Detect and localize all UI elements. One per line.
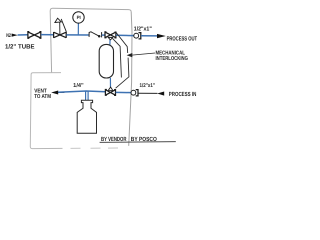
svg-text:PI: PI xyxy=(77,15,81,20)
three-way valve V3 xyxy=(105,32,116,38)
V4 upper port triangle xyxy=(108,87,113,90)
fitting F2 xyxy=(131,90,136,95)
bottle xyxy=(77,100,96,133)
svg-text:1/2"x1": 1/2"x1" xyxy=(140,83,156,89)
three-way valve V4 xyxy=(105,90,115,96)
check valve CV xyxy=(89,32,102,38)
regulator valve V2 xyxy=(54,32,67,38)
vendor boundary frame bottom-left stub xyxy=(30,73,62,149)
vendor boundary frame left edge xyxy=(50,11,51,73)
vent arrow tail xyxy=(58,91,65,93)
vendor boundary frame right edge xyxy=(129,12,132,146)
interlock linkage A xyxy=(112,37,122,77)
valve V1 xyxy=(28,32,41,39)
vessel T1 xyxy=(99,44,113,78)
wire bottle feed right xyxy=(87,91,89,100)
divider underline xyxy=(100,141,176,144)
leader arrow mechanical interlocking xyxy=(127,53,133,57)
wire bottle feed left xyxy=(85,91,87,100)
wire vessel to valve V4 xyxy=(109,78,111,87)
wire V4 to fitting F2 xyxy=(116,91,131,93)
process in arrow xyxy=(157,92,164,96)
wire V2 to check valve xyxy=(66,34,89,36)
svg-text:1/2"x1": 1/2"x1" xyxy=(134,25,152,32)
process out arrow xyxy=(157,34,166,38)
regulator V2 stem xyxy=(59,21,61,35)
wire vent line xyxy=(58,91,105,92)
wire F2 to process in xyxy=(138,92,157,94)
fitting F1 xyxy=(134,33,139,38)
regulator V2 arrowhead xyxy=(55,18,61,22)
wire F1 to process out xyxy=(141,35,157,37)
gauge PI xyxy=(73,12,84,23)
gauge PI stem xyxy=(77,24,79,35)
svg-text:PROCESS OUT: PROCESS OUT xyxy=(167,35,198,42)
svg-text:1/4": 1/4" xyxy=(73,82,84,89)
svg-text:TO ATM: TO ATM xyxy=(34,94,51,100)
vendor boundary frame top edge xyxy=(50,8,131,12)
svg-text:PROCESS IN: PROCESS IN xyxy=(169,91,197,98)
wire V3 to fitting F1 xyxy=(116,34,134,36)
wire CV to valve V3 xyxy=(102,34,105,36)
wire N2 to valve V1 xyxy=(18,34,28,36)
vent arrow xyxy=(51,91,58,95)
interlock linkage B xyxy=(116,33,128,54)
svg-text:N2: N2 xyxy=(6,33,11,39)
wire V3 to vessel xyxy=(109,40,111,45)
vendor boundary dashed bottom xyxy=(71,147,119,149)
regulator V2 diagonal xyxy=(61,19,66,32)
N2 inlet arrow xyxy=(12,34,18,37)
svg-text:INTERLOCKING: INTERLOCKING xyxy=(156,56,188,62)
svg-text:1/2" TUBE: 1/2" TUBE xyxy=(5,43,35,50)
wire V1 to regulator V2 xyxy=(41,34,54,36)
V3 lower port triangle xyxy=(108,37,112,40)
